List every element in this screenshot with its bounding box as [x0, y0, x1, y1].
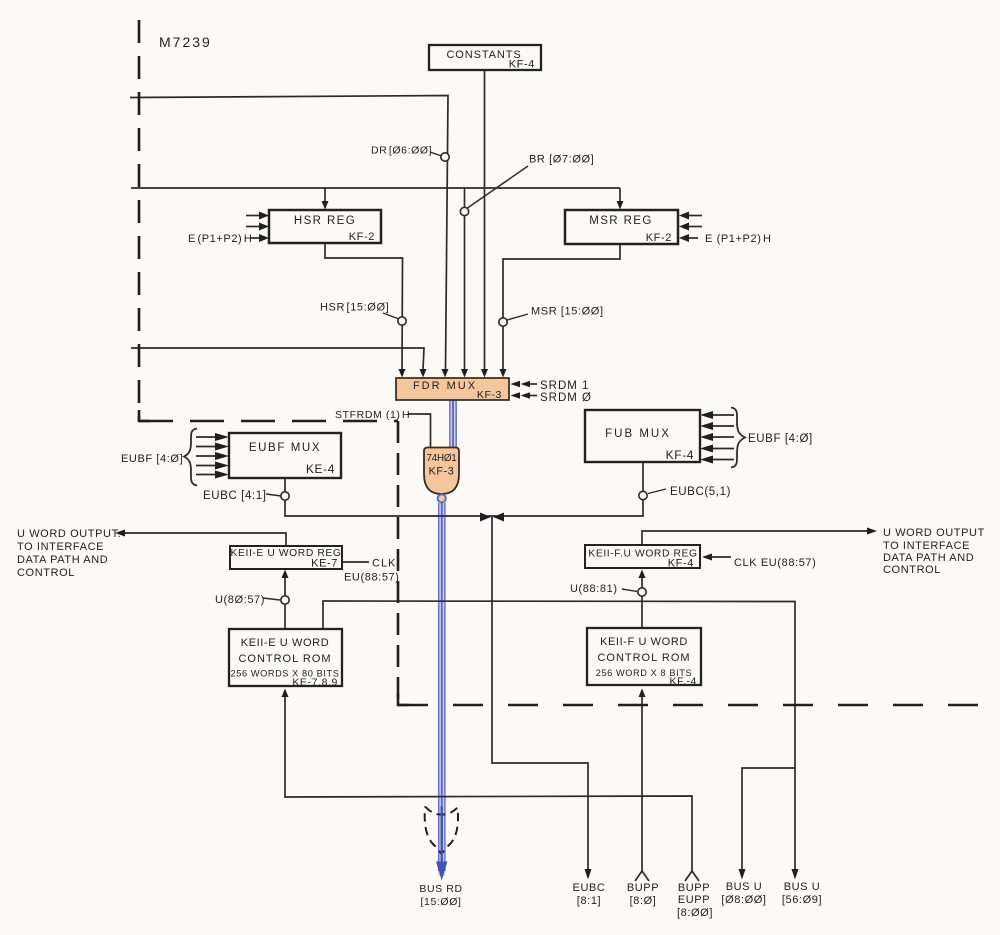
- svg-text:U WORD OUTPUT.: U WORD OUTPUT.: [17, 528, 121, 540]
- svg-text:KF-4: KF-4: [668, 558, 694, 570]
- svg-text:TO INTERFACE: TO INTERFACE: [17, 541, 104, 553]
- wire drop to MSR REG top: [619, 188, 621, 202]
- svg-text:CONTROL: CONTROL: [883, 564, 941, 576]
- svg-text:BUS RD: BUS RD: [419, 883, 462, 895]
- svg-text:EUBC(5,1): EUBC(5,1): [670, 486, 731, 498]
- svg-text:KF-2: KF-2: [349, 231, 375, 243]
- wire ROM-F output up into REG-F: [641, 572, 643, 628]
- wire EUBC net: EUBF MUX output, horizontal y516, FUB MUX output: [285, 462, 643, 516]
- svg-text:CLK EU(88:57): CLK EU(88:57): [734, 557, 816, 569]
- svg-text:CONTROL ROM: CONTROL ROM: [597, 652, 690, 664]
- boundary vertical x398: [397, 421, 400, 705]
- bus RD blue arrow shaft and head: [441, 806, 443, 866]
- boundary corner piece at x398 y705: [398, 693, 409, 705]
- arrow up into REG-F bottom: [639, 570, 646, 579]
- wire EUBC drop to bottom EUBC [8:1]: [492, 517, 588, 871]
- junction flow marks on EUBC net: [480, 513, 491, 522]
- box KE11-E U WORD REG KE-7: [230, 546, 342, 569]
- brace for EUBF [4:0] left: [184, 429, 197, 486]
- wire CLK stub on REG-E: [342, 561, 369, 563]
- svg-text:MSR REG: MSR REG: [589, 215, 652, 227]
- fork BUPP EUPP off-page connector: [685, 871, 699, 881]
- node HSR [15:00]: [398, 317, 406, 325]
- svg-text:STFRDM (1) H: STFRDM (1) H: [335, 409, 410, 421]
- svg-text:[8:ØØ]: [8:ØØ]: [677, 907, 713, 919]
- box KE11-F U WORD CONTROL ROM: [587, 628, 701, 685]
- U(88:81) label pointer: [622, 589, 637, 592]
- arrow right U WORD OUTPUT: [867, 528, 877, 535]
- svg-text:U(8Ø:57): U(8Ø:57): [215, 594, 265, 606]
- svg-text:HSR [15:ØØ]: HSR [15:ØØ]: [320, 302, 389, 314]
- node U(88:81): [638, 588, 646, 596]
- wire HSR REG output to FDR MUX: [325, 243, 403, 370]
- svg-text:KE-7,8,9: KE-7,8,9: [292, 677, 338, 689]
- arrow down EUBC [8:1]: [585, 869, 592, 880]
- svg-text:DATA PATH AND: DATA PATH AND: [883, 552, 974, 564]
- wire ROM-E bottom input from BUPP EUPP: [285, 692, 692, 871]
- U(80:57) label pointer: [263, 598, 280, 600]
- box FUB MUX KF-4: [585, 410, 700, 462]
- svg-text:KEII-F U WORD: KEII-F U WORD: [600, 636, 688, 648]
- boundary left vertical: [138, 20, 141, 421]
- arrow into FDR MUX pin5 (CONSTANTS): [481, 369, 488, 378]
- arrows into HSR REG left: [259, 212, 269, 220]
- node MSR [15:00]: [499, 318, 507, 326]
- wire left U WORD OUTPUT from REG-E top: [124, 533, 286, 546]
- node EUBC [4:1]: [281, 492, 289, 500]
- wire BR tap down to FDR MUX: [464, 188, 466, 370]
- svg-text:74HØ1: 74HØ1: [426, 453, 456, 464]
- svg-text:[Ø8:ØØ]: [Ø8:ØØ]: [721, 894, 766, 906]
- arrow into FDR MUX pin4 (BR): [461, 369, 468, 378]
- wire CLK EU stub on REG-F: [711, 556, 731, 558]
- EUBC (5,1) label pointer: [648, 489, 666, 494]
- svg-text:KF-2: KF-2: [646, 232, 672, 244]
- boundary corner piece at x139 y421: [139, 410, 150, 421]
- svg-text:EUBC [4:1]: EUBC [4:1]: [203, 490, 267, 502]
- svg-text:HSR REG: HSR REG: [294, 215, 356, 227]
- svg-text:DATA PATH AND: DATA PATH AND: [17, 554, 108, 566]
- arrow into FDR MUX pin1: [399, 369, 406, 378]
- svg-text:KF-4: KF-4: [666, 448, 694, 462]
- svg-text:BUS U: BUS U: [726, 881, 763, 893]
- wire DR bus horizontal + drop to FDR MUX: [130, 96, 448, 371]
- wire CONSTANTS stem down to FDR MUX: [484, 70, 486, 370]
- box HSR REG KF-2: [269, 210, 381, 243]
- boundary corner horizontal y421: [139, 420, 398, 423]
- svg-text:[8:Ø]: [8:Ø]: [630, 895, 657, 907]
- arrows into EUBF MUX left: [215, 433, 229, 441]
- gate output bubble: [438, 494, 446, 502]
- MSR label pointer: [507, 314, 528, 320]
- svg-text:KE-7: KE-7: [311, 558, 338, 570]
- svg-text:BUPP: BUPP: [627, 882, 659, 894]
- box EUBF MUX KE-4: [229, 433, 341, 478]
- svg-text:DR [Ø6:ØØ]: DR [Ø6:ØØ]: [371, 145, 432, 157]
- arrow SRDM 0 double head: [511, 392, 521, 398]
- svg-text:KF.-4: KF.-4: [669, 676, 697, 688]
- wire FUB MUX inputs: [712, 414, 734, 416]
- svg-text:E (P1+P2) H: E (P1+P2) H: [705, 233, 772, 245]
- HSR label pointer: [383, 313, 399, 319]
- wire SRDM 0 input: [530, 395, 537, 397]
- svg-text:BUS U: BUS U: [784, 881, 821, 893]
- svg-text:[56:Ø9]: [56:Ø9]: [782, 894, 822, 906]
- svg-text:BUPP: BUPP: [678, 882, 710, 894]
- node EUBC (5,1): [639, 491, 647, 499]
- wire lower feeder horizontal y348 + drop to FDR MUX: [131, 348, 424, 370]
- svg-text:SRDM 1: SRDM 1: [540, 380, 589, 392]
- WIRES_BLACK: [124, 70, 868, 881]
- gate dashed OR (bus RD driver outline): [425, 807, 458, 855]
- svg-text:EUBF MUX: EUBF MUX: [249, 442, 321, 454]
- dash-dot module boundary M7239: [139, 20, 986, 705]
- box KE11-F U WORD REG KF-4: [585, 545, 700, 568]
- svg-text:KF-4: KF-4: [509, 59, 535, 71]
- bus RD highlighted blue band upper segment (FDR MUX to gate): [450, 397, 457, 449]
- arrow up into ROM-E bottom: [282, 689, 289, 698]
- svg-text:BR [Ø7:ØØ]: BR [Ø7:ØØ]: [529, 154, 594, 166]
- wire continuation to BUS U [56:09]: [794, 768, 796, 871]
- BR label diagonal pointer: [468, 166, 529, 208]
- node U(80:57): [281, 596, 289, 604]
- wire EUBF MUX inputs: [196, 436, 216, 438]
- svg-text:SRDM Ø: SRDM Ø: [540, 392, 592, 404]
- svg-text:EUPP: EUPP: [678, 894, 710, 906]
- wire ROM-E output up into REG-E: [284, 572, 286, 629]
- node BR [07:00]: [460, 207, 468, 215]
- svg-text:EUBF [4:Ø]: EUBF [4:Ø]: [748, 433, 813, 445]
- svg-text:TO INTERFACE: TO INTERFACE: [883, 540, 970, 552]
- arrow into FDR MUX pin3 (DR): [442, 369, 449, 378]
- arrow CLK EU into REG-F: [702, 554, 712, 561]
- wire SRDM 1 input: [530, 383, 537, 385]
- svg-text:EUBF [4:Ø]: EUBF [4:Ø]: [121, 453, 183, 465]
- wire MSR REG output to FDR MUX: [503, 244, 620, 370]
- fork BUPP off-page connector: [635, 871, 649, 881]
- EUBC [4:1] label pointer: [266, 494, 281, 496]
- box KE11-E U WORD CONTROL ROM: [229, 629, 342, 686]
- ARROWHEADS: [115, 201, 877, 880]
- svg-text:CONTROL: CONTROL: [17, 567, 75, 579]
- brace for EUBF [4:0] right: [731, 408, 745, 468]
- DR label pointer: [430, 152, 442, 156]
- wire HSR REG inputs: [246, 215, 261, 217]
- arrows into MSR REG right: [679, 212, 689, 220]
- svg-text:FUB MUX: FUB MUX: [605, 428, 671, 440]
- box CONSTANTS KF-4: [429, 45, 541, 70]
- arrow into HSR REG top: [322, 201, 329, 210]
- arrow up into REG-E bottom: [282, 570, 289, 579]
- svg-text:U WORD OUTPUT: U WORD OUTPUT: [883, 527, 985, 539]
- wire STFRDM(1)H to gate input: [408, 414, 431, 447]
- mux FDR MUX KF-3 (highlighted orange): [396, 378, 509, 400]
- svg-text:KF-3: KF-3: [429, 466, 455, 478]
- gate 74H01 KF-3 (highlighted orange): [424, 448, 459, 495]
- wire right U WORD OUTPUT from REG-F top: [642, 531, 868, 545]
- box MSR REG KF-2: [565, 210, 678, 244]
- bus RD highlighted blue band lower segment (gate output to bottom arrow): [438, 503, 445, 876]
- arrow up into ROM-F bottom: [639, 689, 646, 698]
- svg-text:M7239: M7239: [159, 34, 212, 50]
- wire ROM-F bottom input from BUPP: [641, 690, 643, 871]
- svg-text:KE-4: KE-4: [306, 462, 335, 476]
- svg-text:[15:ØØ]: [15:ØØ]: [421, 896, 462, 908]
- arrow down BUS U [08:00]: [739, 869, 746, 880]
- node DR [06:00]: [441, 153, 449, 161]
- svg-text:EUBC: EUBC: [573, 882, 606, 894]
- svg-text:MSR [15:ØØ]: MSR [15:ØØ]: [531, 306, 604, 318]
- wire BR bus horizontal y188: [131, 187, 620, 189]
- svg-text:[8:1]: [8:1]: [577, 895, 601, 907]
- boundary horizontal y705: [398, 704, 986, 707]
- arrow into MSR REG top: [617, 201, 624, 210]
- svg-text:U(88:81): U(88:81): [570, 583, 618, 595]
- svg-text:KF-3: KF-3: [477, 389, 502, 401]
- svg-text:FDR MUX: FDR MUX: [413, 380, 477, 392]
- svg-text:E (P1+P2) H: E (P1+P2) H: [188, 233, 252, 245]
- svg-text:CONTROL ROM: CONTROL ROM: [238, 653, 331, 665]
- arrow down BUS U [56:09]: [792, 869, 799, 880]
- wire MSR REG inputs: [687, 215, 702, 217]
- arrow into FDR MUX pin2: [420, 369, 427, 378]
- wire ROM-E top input loop from right side: [323, 601, 795, 768]
- wire branch to BUS U [08:00]: [742, 768, 795, 871]
- svg-text:KEII-E U WORD: KEII-E U WORD: [241, 637, 329, 649]
- arrow into FDR MUX pin6 (MSR): [500, 369, 507, 378]
- arrow left U WORD OUTPUT: [115, 530, 125, 537]
- svg-text:CLK: CLK: [372, 558, 396, 570]
- arrows into FUB MUX right: [700, 411, 713, 419]
- svg-text:EU(88:57): EU(88:57): [344, 572, 400, 584]
- arrow SRDM 1 double head: [511, 381, 521, 387]
- wire drop to HSR REG top: [324, 188, 326, 202]
